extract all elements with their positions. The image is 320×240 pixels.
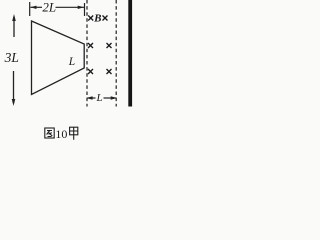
svg-text:3L: 3L (4, 50, 19, 65)
svg-text:10: 10 (55, 127, 67, 141)
svg-text:L: L (68, 56, 75, 68)
svg-text:B: B (93, 13, 101, 25)
svg-text:L: L (96, 92, 103, 104)
svg-text:2L: 2L (42, 0, 56, 15)
